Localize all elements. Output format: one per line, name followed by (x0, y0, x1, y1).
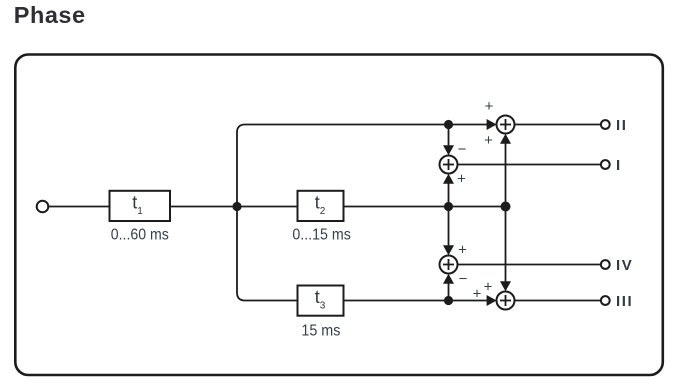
svg-text:+: + (484, 279, 493, 296)
wire t3 to sum U4 (344, 300, 488, 302)
terminal III (601, 296, 610, 305)
svg-text:+: + (485, 98, 494, 115)
wire sum U2 to terminal II (515, 124, 602, 126)
svg-text:Phase: Phase (14, 2, 86, 28)
node mid-right junction (501, 202, 511, 212)
node top junction (444, 120, 453, 129)
delay block t1 (110, 191, 171, 221)
sum U2 (output II) (497, 116, 515, 134)
arrowhead up into sum U2 bottom (500, 134, 511, 144)
svg-text:IV: IV (616, 257, 633, 274)
wire t2 to node B (344, 206, 506, 208)
terminal I (601, 160, 610, 169)
wire node B down to sum U4 (505, 207, 507, 283)
node mid-left junction (444, 202, 453, 211)
terminal IV (601, 260, 610, 269)
node main junction (232, 202, 241, 211)
wire top node down to sum U1 (448, 125, 450, 147)
arrowhead up into sum U1 bottom (443, 174, 454, 184)
wire bottom node up to sum U3 (448, 283, 450, 301)
svg-text:15 ms: 15 ms (301, 322, 340, 339)
svg-text:I: I (616, 157, 622, 174)
svg-text:III: III (616, 293, 633, 310)
node bottom junction (444, 296, 453, 305)
sum U1 (output I) (440, 156, 458, 174)
wire sum U3 to terminal IV (458, 264, 601, 266)
wire middle node to t2 (237, 206, 298, 208)
svg-text:−: − (458, 141, 467, 158)
arrowhead down into sum U3 top (443, 245, 454, 255)
delay block t3 (298, 286, 344, 316)
sum U3 (output IV) (440, 256, 458, 274)
wire branch up and top line (237, 125, 488, 207)
arrowhead into sum U2 left (487, 119, 497, 130)
svg-text:0...15 ms: 0...15 ms (292, 226, 351, 243)
svg-text:+: + (457, 171, 466, 188)
wire t1 to main node (170, 206, 237, 208)
terminal II (601, 120, 610, 129)
svg-text:0...60 ms: 0...60 ms (111, 226, 169, 243)
svg-text:−: − (459, 271, 468, 288)
svg-text:II: II (616, 117, 628, 134)
delay block t2 (298, 191, 344, 221)
wire branch down and bottom line to t3 (237, 207, 298, 301)
wire sum U4 to terminal III (515, 300, 602, 302)
arrowhead into sum U4 left (487, 295, 497, 306)
wire node B up to sum U2 (505, 143, 507, 207)
svg-text:+: + (458, 242, 467, 259)
wire input to t1 (48, 206, 109, 208)
input terminal (37, 201, 49, 213)
wire mid node up to sum U1 (448, 183, 450, 207)
wire mid node down to sum U3 (448, 207, 450, 247)
wire sum U1 to terminal I (458, 164, 601, 166)
svg-text:+: + (484, 132, 493, 149)
svg-text:+: + (473, 286, 482, 303)
arrowhead down into sum U1 top (443, 145, 454, 155)
arrowhead up into sum U3 bottom (443, 274, 454, 284)
arrowhead down into sum U4 top (500, 281, 511, 291)
sum U4 (output III) (497, 292, 515, 310)
